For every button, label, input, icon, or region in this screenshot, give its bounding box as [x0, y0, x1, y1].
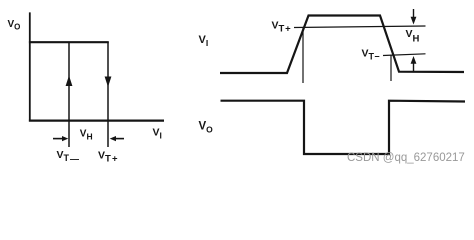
svg-text:VT−: VT− — [362, 48, 380, 62]
svg-text:CSDN @qq_62760217: CSDN @qq_62760217 — [347, 152, 465, 164]
up arrowhead on V_T- line — [66, 76, 73, 87]
V_O axis (vertical) — [29, 12, 31, 121]
hysteresis right vertical (at V_T+) — [107, 42, 109, 147]
hysteresis left vertical (at V_T-) — [68, 42, 70, 147]
V_T- threshold reference line — [383, 54, 426, 56]
V_T+ threshold reference line — [294, 26, 426, 28]
V_I trapezoid waveform — [220, 16, 464, 74]
svg-text:VT—: VT— — [57, 149, 80, 164]
svg-text:VT+: VT+ — [98, 149, 119, 164]
V_H right dimension arrow (points left) — [114, 138, 124, 140]
V_H left dimension arrow (points right) — [53, 138, 64, 140]
svg-text:VO: VO — [8, 19, 21, 32]
V_H down arrow (points to V_T+ line) — [413, 9, 415, 18]
svg-text:VI: VI — [199, 34, 209, 48]
svg-text:VH: VH — [406, 28, 420, 45]
output high level line — [29, 41, 109, 43]
tick at V_T- crossing — [390, 55, 392, 82]
down arrowhead on V_T+ line — [105, 77, 112, 88]
svg-text:VO: VO — [199, 121, 214, 135]
svg-text:VH: VH — [80, 129, 93, 142]
V_O rectangular waveform — [221, 101, 466, 154]
svg-text:VT+: VT+ — [272, 20, 292, 35]
tick at V_T+ crossing — [302, 27, 304, 83]
V_H up arrow (points to V_T- line) — [413, 63, 415, 71]
svg-text:VI: VI — [153, 127, 162, 141]
V_I axis / output low level (horizontal) — [29, 119, 164, 121]
